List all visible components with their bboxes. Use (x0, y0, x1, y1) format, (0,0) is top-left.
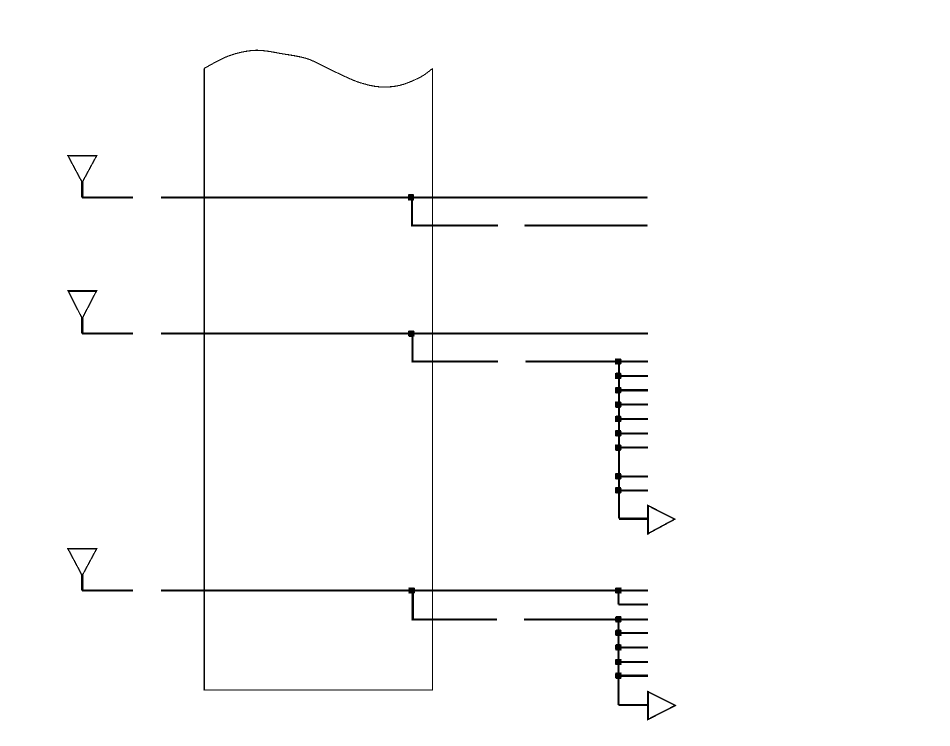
antenna A2 top bar (68, 290, 97, 292)
junction dot at tap-off rail 1 (615, 358, 621, 364)
antenna A3 lead stub (81, 575, 83, 591)
wire: feeder 3 lower run segment a (412, 618, 498, 620)
amplifier U2 input edge (647, 691, 649, 720)
junction dot rail 1 tap 1 (615, 373, 621, 379)
wire: feeder 2 lower run segment a (411, 360, 498, 362)
junction dot feeder 3 tap (615, 587, 621, 593)
wire: feeder 3 tap drop (617, 590, 619, 604)
wire: tap-off rail 1 vertical (618, 361, 620, 518)
wire: tap-off rail 2 vertical (617, 619, 619, 705)
wire: feeder 1 drop (411, 197, 413, 226)
wire: rail 1 tap 6 (619, 447, 648, 449)
cable riser duct torn (wavy) top edge (204, 50, 432, 87)
junction dot rail 1 tap 4 (615, 416, 621, 422)
junction dot rail 1 tap 7 (615, 473, 621, 479)
wire: antenna A3 feeder segment (82, 589, 133, 591)
junction dot rail 1 tap 8 (615, 487, 621, 493)
amplifier U1 (buffer triangle) (648, 506, 675, 534)
wire: rail 1 tap 3 (619, 404, 648, 406)
wire: feeder 2 lower run segment b (526, 360, 648, 362)
junction dot rail 1 tap 3 (615, 401, 621, 407)
wire: rail 1 tap 2 (619, 389, 648, 391)
wire: rail 2 elbow to amplifier (618, 704, 648, 706)
antenna A1 lead stub (81, 182, 83, 198)
junction dot at tap-off rail 2 (615, 616, 621, 622)
wire: feeder 3 main run (161, 589, 648, 591)
wire: feeder 3 drop (412, 590, 414, 619)
junction dot rail 1 tap 6 (615, 444, 621, 450)
wire: rail 1 tap 5 (619, 432, 648, 434)
antenna A2 lead stub (81, 318, 83, 334)
junction dot rail 1 tap 2 (615, 387, 621, 393)
wire: feeder 2 main run (161, 333, 648, 335)
antenna A2 symbol (68, 291, 97, 319)
wire: rail 1 tap 4 (619, 418, 648, 420)
wire: feeder 1 lower run segment a (411, 224, 498, 226)
junction dot rail 2 tap 2 (615, 644, 621, 650)
junction dot rail 2 tap 3 (615, 659, 621, 665)
wire: feeder 1 main run (161, 196, 647, 198)
wire: rail 1 tap 7 (619, 475, 648, 477)
junction dot on feeder 3 (409, 587, 415, 593)
antenna A1 symbol (68, 156, 97, 183)
wire: rail 2 tap 1 (618, 632, 647, 634)
wire: rail 2 tap 2 (618, 646, 647, 648)
junction dot rail 2 tap 1 (615, 630, 621, 636)
cable riser duct outline (left, bottom, right edges) (204, 68, 432, 690)
junction dot rail 1 tap 5 (615, 430, 621, 436)
wire: feeder 3 tap stub (618, 603, 647, 605)
junction dot on feeder 1 (408, 194, 414, 200)
wire: rail 2 tap 3 (618, 661, 647, 663)
junction dot rail 2 tap 4 (615, 673, 621, 679)
wire: rail 2 tap 4 (618, 675, 647, 677)
wire: rail 1 tap 8 (619, 489, 648, 491)
junction dot on feeder 2 (408, 330, 414, 336)
amplifier U2 (buffer triangle) (648, 692, 676, 720)
wire: antenna A1 feeder segment (82, 196, 133, 198)
wire: antenna A2 feeder segment (82, 333, 133, 335)
wire: rail 1 tap 1 (619, 375, 648, 377)
wire: feeder 2 drop (411, 334, 413, 363)
wire: feeder 3 lower run segment b (524, 618, 648, 620)
amplifier U1 input edge (647, 505, 649, 535)
antenna A3 symbol (68, 549, 97, 576)
wire: feeder 1 lower run segment b (525, 224, 648, 226)
wire: rail 1 elbow to amplifier (619, 518, 648, 520)
